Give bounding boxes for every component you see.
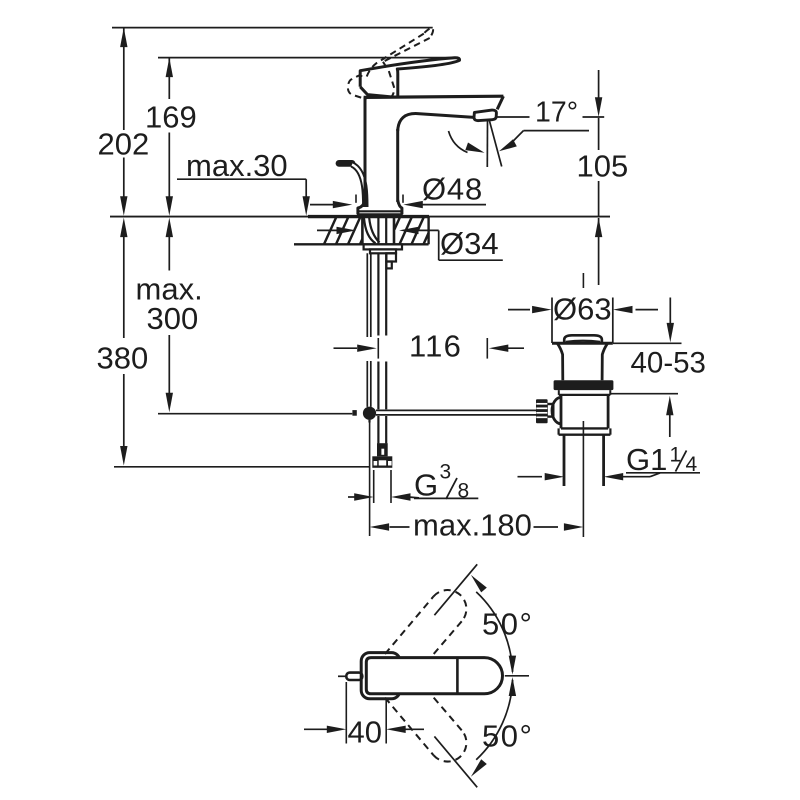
svg-text:169: 169 xyxy=(145,100,197,135)
svg-text:max.180: max.180 xyxy=(413,508,532,543)
svg-text:17°: 17° xyxy=(535,97,578,129)
svg-text:G1: G1 xyxy=(626,442,667,477)
svg-text:300: 300 xyxy=(147,301,199,336)
svg-text:50°: 50° xyxy=(482,719,533,754)
svg-text:Ø34: Ø34 xyxy=(440,226,499,261)
svg-text:380: 380 xyxy=(97,341,149,376)
svg-text:3: 3 xyxy=(440,461,452,484)
svg-text:50°: 50° xyxy=(482,607,533,642)
svg-text:40: 40 xyxy=(348,715,382,750)
svg-text:105: 105 xyxy=(577,149,629,184)
svg-text:G: G xyxy=(414,468,438,503)
svg-text:202: 202 xyxy=(98,127,150,162)
svg-text:4: 4 xyxy=(686,453,698,476)
svg-text:116: 116 xyxy=(409,329,462,364)
svg-text:max.30: max.30 xyxy=(186,148,288,183)
svg-text:Ø48: Ø48 xyxy=(422,172,483,207)
svg-text:40-53: 40-53 xyxy=(631,347,706,380)
svg-text:8: 8 xyxy=(458,480,470,503)
svg-text:Ø63: Ø63 xyxy=(553,292,612,327)
